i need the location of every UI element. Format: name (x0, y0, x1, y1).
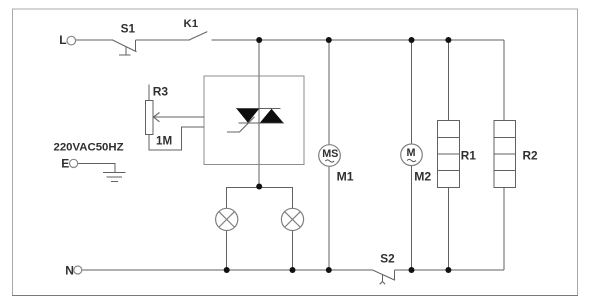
switch S1 actuator post (125, 47, 127, 55)
ground bar 2 (107, 176, 123, 178)
wire R2 to N rail drop (503, 187, 505, 270)
potentiometer R3 top stub (148, 85, 150, 101)
node: M2 branch on L rail (409, 37, 415, 43)
lamp LP2 (281, 208, 303, 230)
ground bar 3 (111, 181, 118, 183)
resistor R2 body (494, 121, 516, 188)
wire K1 to R2 corner (L rail) (212, 39, 504, 41)
smooth diagonal strokes (112, 32, 395, 285)
potentiometer R3 body (145, 100, 153, 134)
terminal N circle (74, 266, 82, 274)
tilde in M1 (325, 160, 334, 162)
wire R1 to N rail (447, 187, 449, 270)
switch S2 actuator tent (380, 282, 385, 285)
resistor R2 tap 3 (494, 170, 516, 172)
ground bar 1 (103, 171, 126, 173)
wire triac branch vertical (258, 40, 260, 187)
terminal E circle (70, 159, 78, 167)
wire S1 to K1 (136, 39, 191, 41)
triac top bar (236, 108, 281, 110)
resistor R2 tap 1 (494, 136, 516, 138)
resistor R1 tap 1 (438, 136, 460, 138)
switch S1 actuator bar (119, 54, 130, 56)
tilde in M2 (407, 159, 416, 161)
motor M1 circle (319, 145, 341, 167)
triac bottom bar (239, 122, 285, 124)
wire M1 to N rail (328, 166, 330, 270)
node: triac branch on L rail (256, 37, 262, 43)
wire N rail right of S2 (395, 269, 504, 271)
switch S1 right stub (135, 40, 137, 51)
switch S2 right stub (394, 270, 396, 280)
node: LP1 on N rail (224, 267, 230, 273)
lamp LP1 (216, 208, 238, 230)
svg-text:220VAC50HZ: 220VAC50HZ (54, 142, 124, 154)
svg-text:R2: R2 (523, 149, 539, 163)
switch S2 actuator post (381, 275, 383, 282)
svg-text:S2: S2 (380, 251, 395, 265)
resistor R2 tap 2 (494, 153, 516, 155)
node: M1 on N rail (326, 267, 332, 273)
circles and curved parts (67, 36, 422, 274)
svg-text:S1: S1 (121, 21, 136, 35)
lamp header bracket (227, 187, 293, 208)
resistor R1 tap 3 (438, 170, 460, 172)
svg-text:1M: 1M (156, 134, 172, 147)
wire L to S1 (75, 39, 112, 41)
border frame bottom edge (darker) (12, 295, 578, 297)
svg-text:E: E (61, 156, 69, 170)
resistor R1 body (438, 121, 460, 188)
motor M2 circle (401, 144, 423, 166)
node: lamp header junction (256, 184, 262, 190)
resistor R1 tap 2 (438, 153, 460, 155)
svg-text:M1: M1 (337, 169, 354, 183)
relay contact K1 blade (190, 32, 208, 40)
node: LP2 on N rail (290, 267, 296, 273)
triac left triangle (237, 109, 260, 123)
wire lamp LP1 to N rail (226, 230, 228, 270)
svg-text:L: L (59, 33, 66, 47)
wire R2 branch top drop (503, 40, 505, 121)
svg-text:M: M (407, 147, 416, 159)
wire lamp LP2 to N rail (292, 230, 294, 270)
terminal L circle (67, 36, 76, 45)
svg-text:MS: MS (322, 148, 338, 160)
potentiometer R3 arrowhead (154, 113, 160, 122)
switch S1 blade (112, 40, 137, 52)
crisp axis-aligned wires (75, 40, 515, 282)
module box U1 (204, 76, 304, 164)
triac right triangle (260, 109, 284, 123)
wire R3 bottom to module lower pin (149, 127, 204, 150)
node: M1 branch on L rail (326, 37, 332, 43)
potentiometer R3 wiper line (154, 116, 204, 118)
wire E to ground (78, 163, 115, 172)
svg-text:R1: R1 (461, 149, 477, 163)
svg-text:R3: R3 (153, 84, 169, 98)
wire M1 branch top (328, 40, 330, 145)
wire N rail left of S2 (82, 269, 373, 271)
node: M2 on N rail (409, 267, 415, 273)
svg-text:K1: K1 (184, 18, 199, 30)
svg-text:N: N (65, 264, 74, 278)
wire M2 branch top (411, 40, 413, 145)
wire R1 branch top (447, 40, 449, 121)
node: R1 branch on L rail (445, 37, 451, 43)
wire M2 to N rail (411, 166, 413, 271)
triac gate (227, 117, 255, 132)
switch S2 blade (373, 270, 396, 280)
node: R1 on N rail (445, 267, 451, 273)
svg-text:M2: M2 (414, 169, 431, 183)
